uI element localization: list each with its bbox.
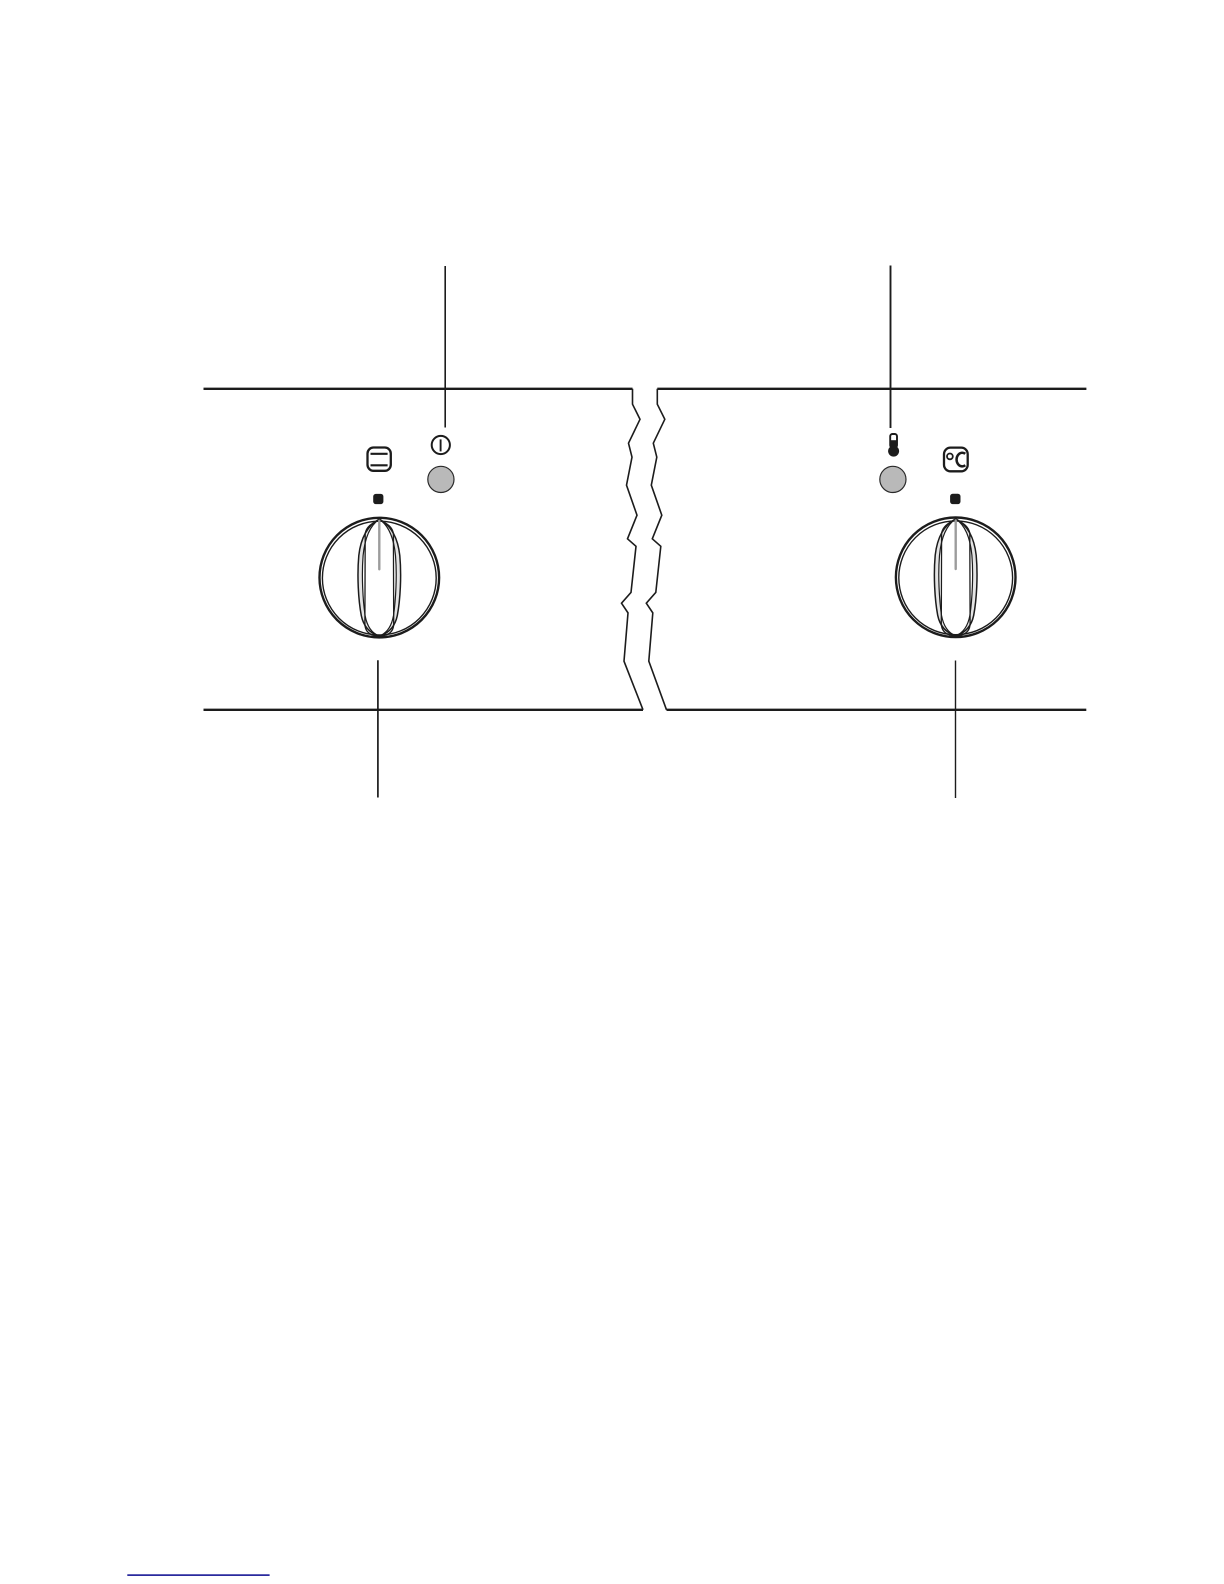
- callout line bottom right (from right knob): [955, 661, 957, 799]
- left knob position mark (black square): [373, 494, 383, 504]
- callout line top right (to thermostat lamp): [890, 266, 892, 429]
- break jagged line left: [622, 389, 644, 710]
- power symbol (circle with bar): [432, 436, 450, 454]
- panel top edge line (left of break): [204, 388, 633, 390]
- oven function icon (square with two bars): [368, 448, 391, 471]
- celsius icon (square with °C): [944, 448, 968, 472]
- thermometer symbol: [888, 434, 899, 457]
- footer blue rule: [127, 1574, 269, 1576]
- break jagged line right: [646, 389, 666, 710]
- left control knob: [320, 518, 440, 638]
- panel bottom edge line (right of break): [667, 709, 1087, 711]
- callout line bottom left (from left knob): [377, 660, 379, 797]
- panel bottom edge line (left of break): [204, 709, 644, 711]
- right knob position mark (black square): [950, 494, 960, 504]
- thermostat indicator lamp (grey): [880, 466, 906, 492]
- callout line top left (to power lamp): [444, 266, 446, 428]
- panel top edge line (right of break): [657, 388, 1086, 390]
- right control knob: [896, 518, 1016, 638]
- power indicator lamp (grey): [428, 466, 454, 492]
